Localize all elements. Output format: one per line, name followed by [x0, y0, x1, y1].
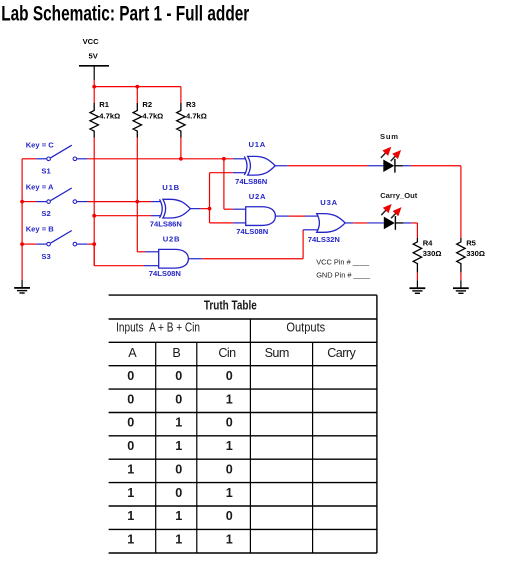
svg-text:R4: R4 [423, 238, 433, 247]
svg-text:1: 1 [175, 439, 182, 453]
svg-text:1: 1 [226, 439, 233, 453]
resistor R1 [90, 87, 120, 138]
svg-text:4.7kΩ: 4.7kΩ [186, 112, 207, 121]
svg-text:S3: S3 [41, 252, 50, 261]
svg-text:74LS08N: 74LS08N [236, 227, 268, 236]
ground (left) [14, 280, 30, 293]
wire S1 to U1A (net C) [88, 158, 234, 160]
svg-text:Truth Table: Truth Table [204, 300, 257, 313]
ground below R5 [453, 280, 469, 293]
svg-text:74LS08N: 74LS08N [149, 269, 181, 278]
svg-text:0: 0 [175, 369, 182, 383]
svg-text:Carry: Carry [327, 346, 356, 360]
op U2A pin stubs [233, 208, 246, 210]
op U1B pin stubs [151, 201, 161, 203]
svg-text:0: 0 [226, 369, 233, 383]
svg-text:VCC Pin # ____: VCC Pin # ____ [316, 257, 370, 266]
svg-text:Key = C: Key = C [26, 141, 55, 150]
svg-text:S2: S2 [41, 209, 50, 218]
svg-text:R5: R5 [466, 238, 476, 247]
svg-text:0: 0 [127, 439, 134, 453]
svg-text:1: 1 [175, 533, 182, 547]
svg-text:5V: 5V [89, 52, 99, 61]
svg-text:U1A: U1A [249, 140, 267, 149]
gate U3A 74LS32N (OR) [308, 198, 345, 244]
svg-text:1: 1 [127, 462, 134, 476]
junction rail R1 [92, 85, 96, 89]
wire U2A out to U3A [289, 215, 305, 217]
svg-text:B: B [172, 346, 180, 360]
resistor R5 330ohm [457, 238, 485, 280]
svg-text:0: 0 [175, 462, 182, 476]
svg-text:1: 1 [127, 509, 134, 523]
wire U1A out to LED Sum [288, 165, 368, 167]
switch S2 Key = A [22, 183, 88, 218]
wire LED Sum to R5 [403, 165, 411, 167]
svg-text:Carry_Out: Carry_Out [380, 191, 418, 200]
wire B to U1B input [94, 215, 151, 217]
wire top rail [94, 86, 181, 88]
svg-text:0: 0 [175, 486, 182, 500]
gate U2A 74LS08N (AND) [236, 192, 275, 236]
switch S3 Key = B [22, 225, 88, 261]
LED Carry_Out [378, 191, 417, 230]
svg-text:0: 0 [127, 369, 134, 383]
wire R1 column (net B) [93, 138, 95, 266]
ground below R4 [410, 280, 426, 293]
junction C branch [222, 157, 226, 161]
resistor R4 330ohm [413, 238, 441, 280]
LED Sum [378, 132, 404, 172]
wire R3 column (net C) [180, 138, 182, 159]
wire R2 column (net A) [136, 138, 138, 252]
svg-text:Sum: Sum [380, 132, 399, 141]
wire U2B out [202, 258, 303, 260]
wire S3 to R1 column (net B) [88, 243, 95, 245]
junction A at R2 [135, 200, 139, 204]
junction left rail S2 [20, 200, 24, 204]
wire A down to U2B [137, 251, 145, 253]
svg-text:VCC: VCC [83, 37, 100, 46]
svg-text:U2A: U2A [249, 192, 267, 201]
svg-text:74LS86N: 74LS86N [150, 220, 182, 229]
svg-text:R3: R3 [186, 100, 196, 109]
gate U1B 74LS86N (XOR) [150, 183, 191, 228]
svg-text:330Ω: 330Ω [466, 249, 485, 258]
wire S2 to U1B (net A) [88, 201, 151, 203]
wire U3A out to LED Carry [353, 222, 367, 224]
gate U2B 74LS08N (AND) [149, 235, 189, 279]
truth table [109, 295, 377, 553]
svg-text:0: 0 [226, 416, 233, 430]
svg-text:0: 0 [175, 392, 182, 406]
svg-text:S1: S1 [41, 167, 51, 176]
resistor R3 [177, 87, 207, 138]
junction left rail S3 [20, 242, 24, 246]
svg-text:0: 0 [226, 462, 233, 476]
wire LED Carry to R4 [403, 222, 411, 224]
svg-text:330Ω: 330Ω [423, 249, 442, 258]
op U3A pin stubs [303, 229, 318, 231]
svg-text:Cin: Cin [218, 346, 236, 360]
wire C branch vertical [223, 159, 225, 209]
svg-text:Key = A: Key = A [26, 183, 54, 192]
svg-text:1: 1 [226, 392, 233, 406]
wire AxorB to U1A [210, 172, 233, 174]
junction A xor B [208, 207, 212, 211]
svg-text:1: 1 [175, 509, 182, 523]
junction B branch to U1B [92, 214, 96, 218]
svg-text:U1B: U1B [162, 183, 180, 192]
svg-text:1: 1 [127, 486, 134, 500]
junction B at S3 [92, 242, 96, 246]
svg-text:R1: R1 [99, 100, 109, 109]
svg-text:1: 1 [127, 533, 134, 547]
svg-text:0: 0 [127, 392, 134, 406]
svg-text:U2B: U2B [163, 235, 181, 244]
svg-text:U3A: U3A [320, 198, 338, 207]
resistor R2 [133, 87, 163, 138]
svg-text:Outputs: Outputs [286, 320, 325, 335]
svg-text:0: 0 [226, 509, 233, 523]
svg-text:1: 1 [226, 533, 233, 547]
junction rail R2 [135, 85, 139, 89]
svg-text:74LS32N: 74LS32N [308, 235, 340, 244]
svg-text:0: 0 [127, 416, 134, 430]
svg-text:Key = B: Key = B [26, 225, 55, 234]
svg-text:A: A [128, 346, 137, 360]
svg-text:74LS86N: 74LS86N [235, 177, 267, 186]
wire AxorB vertical [209, 173, 211, 223]
junction C at R3 [179, 157, 183, 161]
svg-text:1: 1 [226, 486, 233, 500]
svg-text:Sum: Sum [265, 346, 289, 360]
wire C branch to U2A [224, 208, 233, 210]
op U2B pin stubs [145, 251, 159, 253]
gate U1A 74LS86N (XOR) [235, 140, 275, 186]
svg-text:R2: R2 [142, 100, 152, 109]
wire VCC stem [93, 80, 95, 87]
svg-text:4.7kΩ: 4.7kΩ [99, 112, 120, 121]
VCC supply symbol [79, 37, 109, 80]
svg-text:4.7kΩ: 4.7kΩ [142, 112, 163, 121]
wire B down to U2B [93, 244, 95, 266]
wire AxorB to U2A [210, 222, 234, 224]
op U1A pin stubs [233, 158, 245, 160]
wire U1B output [201, 208, 210, 210]
switch S1 Key = C [22, 141, 88, 176]
svg-text:GND Pin # ____: GND Pin # ____ [316, 271, 371, 280]
svg-text:Lab Schematic: Part 1 - Full a: Lab Schematic: Part 1 - Full adder [1, 1, 250, 25]
svg-text:Inputs A + B + Cin: Inputs A + B + Cin [116, 321, 200, 334]
wire U2B out vertical to U3A [302, 230, 304, 259]
wire left rail [21, 159, 23, 280]
svg-text:1: 1 [175, 416, 182, 430]
